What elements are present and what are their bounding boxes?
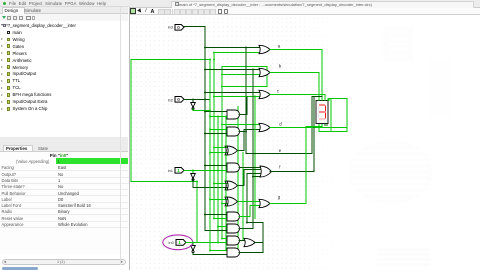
AND gate G8: [227, 224, 240, 233]
wire tap G9 top: [222, 238, 227, 240]
wire F input mid: [247, 173, 260, 175]
canvas toolbar: [129, 8, 480, 16]
wire net f out: [270, 171, 314, 173]
watermark document top-right: [383, 27, 413, 61]
wire net in3 bus vertical: [204, 27, 206, 231]
pin in0 (selected): [176, 240, 186, 246]
wire to gate B top: [205, 69, 259, 71]
wire net in1 from pin: [184, 170, 227, 172]
wire to gate B bottom: [222, 74, 259, 76]
wire net d frame right: [346, 99, 348, 132]
wire net a out: [270, 49, 322, 51]
svg-text:d: d: [279, 121, 282, 126]
wire tap G4 top: [205, 165, 227, 167]
wire bright vertical x237.5 behind gates: [237, 107, 239, 251]
OR gate B: [259, 68, 270, 76]
OR gate A: [259, 45, 270, 53]
wire to gate A bottom: [214, 52, 259, 54]
OR gate F (4-input): [260, 166, 272, 177]
bottom mini scrollbar thumb: [2, 267, 38, 270]
wire net b out: [270, 72, 319, 74]
AND gate G9: [227, 236, 240, 245]
pin in2: [175, 97, 184, 103]
wire G2 out to e net: [239, 131, 246, 133]
panel right edge: [120, 7, 121, 265]
wire tap G7 top: [205, 214, 227, 216]
wire to gate D top: [222, 124, 259, 126]
wire net wrapLeft bottom horizontal: [131, 181, 197, 183]
OR gate C: [259, 90, 270, 98]
zoom bar: [2, 259, 126, 266]
wire net d frame bottom: [319, 131, 347, 133]
wire tap G3 top: [214, 147, 227, 149]
left panel: Design/Simulate tabs: [0, 7, 128, 14]
OR gate D: [259, 123, 270, 131]
wire bright frame bottom: [222, 86, 267, 88]
wire dark display top-left: [312, 96, 322, 98]
wire net c out: [270, 94, 325, 96]
XOR gate G6: [227, 197, 237, 206]
svg-text:0: 0: [177, 25, 180, 30]
svg-text:g: g: [277, 195, 280, 200]
wire to gate D bottom: [244, 129, 259, 131]
display bottom pins: [324, 124, 326, 126]
properties tabs: [0, 145, 128, 152]
wire bus vertical x217.5: [217, 117, 219, 243]
wire net in2 from pin: [184, 99, 210, 101]
panel/canvas divider: [129, 7, 130, 270]
OR gate G10: [244, 238, 255, 246]
watermark small square mid-right: [428, 60, 450, 116]
wire tap G11 top: [210, 250, 227, 252]
wire to gate A top: [205, 47, 259, 49]
wire G8 out to F: [239, 228, 253, 230]
svg-text:f: f: [279, 165, 281, 170]
svg-text:in1: in1: [167, 168, 173, 173]
inverter NOT0 under in0: [192, 243, 194, 246]
pin in3: [175, 25, 184, 31]
wire G10 out loop: [255, 242, 263, 244]
wire bus vertical x225.5: [225, 117, 227, 251]
wire net g out: [270, 203, 306, 205]
pin in1: [175, 168, 184, 174]
wire bus vertical x213.5: [213, 53, 215, 219]
wire net e riser to display: [311, 97, 313, 154]
svg-text:in2: in2: [167, 97, 173, 102]
wire G1 out to C: [239, 114, 247, 116]
project tree: [0, 21, 128, 137]
wire tap G6 bottom: [222, 203, 227, 205]
wire G5 out to F: [239, 185, 244, 187]
wire G4 out to F: [239, 167, 260, 169]
svg-text:1: 1: [177, 168, 180, 173]
wire net in3 from pin: [184, 26, 205, 28]
wire tap G3 bottom: [210, 152, 227, 154]
7-segment display U1: [316, 101, 328, 124]
watermark blob: [348, 140, 432, 204]
wire net in0n out: [192, 253, 194, 255]
wire net wrapLeft vertical: [130, 60, 132, 182]
wire tap G1 top: [205, 111, 227, 113]
wire bus vertical x221.5: [221, 67, 223, 239]
wire tap G8 top: [218, 226, 227, 228]
wire net g bottom connect: [306, 126, 322, 128]
wire net wrapLeft riser: [196, 182, 198, 243]
svg-text:0: 0: [177, 97, 180, 102]
wire bright vertical x242.5: [242, 153, 244, 241]
svg-text:a: a: [277, 44, 280, 49]
wire dark riser x245.5 to A top: [245, 48, 247, 132]
wire to gate C top: [205, 92, 259, 94]
svg-text:in0: in0: [168, 240, 174, 245]
wire tap G1 bottom: [210, 116, 227, 118]
selection oval around pin in0: [162, 235, 192, 250]
AND gate G2: [227, 127, 240, 136]
canvas with grid: [130, 15, 480, 270]
svg-text:in3: in3: [167, 25, 173, 30]
wire to gate C bottom: [214, 96, 259, 98]
AND gate G7: [227, 212, 240, 221]
wire riser x246.5: [246, 174, 248, 223]
wire net d out: [270, 127, 347, 129]
wire G7 out to G bottom: [239, 216, 250, 218]
wire tap G6 top: [210, 199, 227, 201]
wire G6 out to G top: [239, 201, 259, 203]
wire net in1n out loop: [192, 180, 194, 188]
green value row: [56, 158, 128, 164]
wire net wrapLeft top horizontal: [131, 59, 210, 61]
wire net d frame inner riser: [330, 99, 332, 132]
wire tap G2 top: [210, 129, 227, 131]
wire net e horizontal: [246, 153, 312, 155]
wire G3 out to D bottom: [239, 150, 244, 152]
svg-text:1: 1: [178, 240, 181, 245]
wire G9 out to G10: [239, 240, 244, 242]
junction dots dark: [204, 47, 206, 49]
XOR gate G3: [227, 146, 237, 155]
XOR gate G5: [227, 181, 237, 190]
wire net in2n out loop: [192, 109, 194, 111]
menu bar: [0, 0, 480, 7]
svg-text:e: e: [278, 148, 281, 153]
display top pins: [318, 99, 320, 101]
wire tap G2 bottom: [205, 133, 227, 135]
svg-text:b: b: [278, 64, 281, 69]
canvas tab strip: [129, 0, 480, 8]
inverter NOT2 under in2: [192, 100, 194, 103]
tool icons: [130, 8, 136, 14]
inverter NOT1 under in1: [192, 171, 194, 174]
watermark stripes bottom-right: [376, 248, 430, 266]
wire bright frame top: [222, 66, 267, 68]
AND gate G1: [227, 110, 240, 119]
junction dots bright: [213, 52, 215, 54]
wire tap G8 bottom: [205, 230, 227, 232]
wire riser x254.5: [254, 97, 256, 219]
OR gate G: [259, 199, 270, 207]
wire tap G5 top: [214, 183, 227, 185]
wire net in0 from pin: [186, 242, 227, 244]
svg-text:c: c: [276, 89, 279, 94]
AND gate G11: [227, 248, 240, 257]
splitter: [0, 137, 128, 145]
wire bright frame right: [266, 67, 268, 87]
wire tap G7 bottom: [214, 218, 227, 220]
AND gate G4: [227, 163, 240, 172]
properties table: [0, 152, 128, 255]
wire net d frame top: [329, 98, 347, 100]
wire bus vertical x209.5: [209, 60, 211, 251]
explorer mini toolbar: [0, 14, 128, 21]
wire G11 out: [239, 252, 263, 254]
